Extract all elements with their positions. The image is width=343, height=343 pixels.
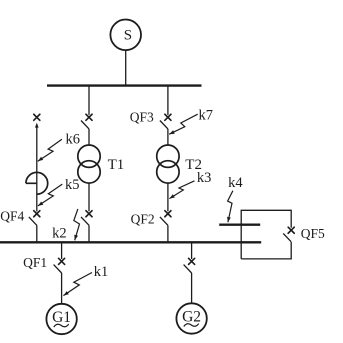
breaker QF4 — [34, 211, 40, 217]
wire QF4 to busbar — [36, 225, 38, 242]
svg-text:k2: k2 — [52, 225, 67, 241]
tie loop wires — [241, 210, 291, 259]
wire to G1 — [61, 273, 63, 304]
generator G2 — [176, 303, 206, 333]
breaker above T1 — [86, 114, 92, 120]
fault arrow k4 — [228, 191, 233, 223]
svg-text:k4: k4 — [228, 175, 243, 191]
wire to T1 — [88, 129, 90, 145]
svg-text:G1: G1 — [52, 309, 71, 326]
fault arrow k5 — [38, 184, 62, 206]
upper busbar — [47, 84, 202, 86]
wire S to upper busbar — [125, 50, 127, 86]
right busbar section — [219, 223, 260, 225]
breaker QF5 — [288, 227, 294, 233]
svg-text:QF4: QF4 — [0, 208, 24, 223]
svg-text:k5: k5 — [65, 177, 80, 193]
svg-text:QF5: QF5 — [301, 226, 325, 241]
fault arrow k7 — [169, 114, 198, 134]
wire T2 to QF2 — [167, 183, 169, 211]
svg-text:k1: k1 — [94, 264, 109, 280]
source S — [110, 20, 141, 51]
transformer T2 — [157, 145, 179, 167]
wire busbar to QF3 — [167, 86, 169, 115]
reactor LR — [26, 172, 48, 194]
breaker QF3 — [165, 114, 171, 120]
breaker above G2 — [189, 258, 195, 264]
svg-text:S: S — [124, 28, 132, 44]
generator busbar — [0, 241, 261, 243]
svg-text:k3: k3 — [197, 170, 212, 186]
transformer T1 — [78, 145, 100, 167]
breaker X top of reactor feeder — [34, 114, 40, 120]
breaker QF2 — [165, 211, 171, 217]
svg-text:QF3: QF3 — [130, 109, 154, 124]
svg-text:QF2: QF2 — [131, 211, 155, 226]
wire reactor feeder — [36, 126, 38, 211]
fault arrow k2 — [74, 209, 80, 240]
wire to lower busbar — [88, 225, 90, 242]
wire busbar to QF1 — [61, 242, 63, 259]
wire to T2 — [167, 129, 169, 145]
svg-text:T1: T1 — [108, 157, 125, 173]
up arrow to system — [35, 123, 39, 128]
svg-text:k6: k6 — [66, 132, 81, 148]
wire busbar to T1 breaker — [88, 86, 90, 115]
fault arrow k3 — [169, 181, 194, 199]
svg-text:QF1: QF1 — [23, 255, 47, 270]
breaker below T1 — [86, 211, 92, 217]
svg-text:G2: G2 — [182, 309, 201, 326]
fault arrow k1 — [63, 273, 92, 296]
wire QF2 to busbar — [167, 225, 169, 242]
wire busbar to G2 breaker — [191, 242, 193, 259]
fault arrow k6 — [38, 139, 62, 161]
wire to G2 — [191, 273, 193, 303]
breaker QF1 — [59, 258, 65, 264]
svg-text:k7: k7 — [199, 107, 214, 123]
wire T1 to lower breaker — [88, 183, 90, 211]
generator G1 — [46, 304, 76, 334]
